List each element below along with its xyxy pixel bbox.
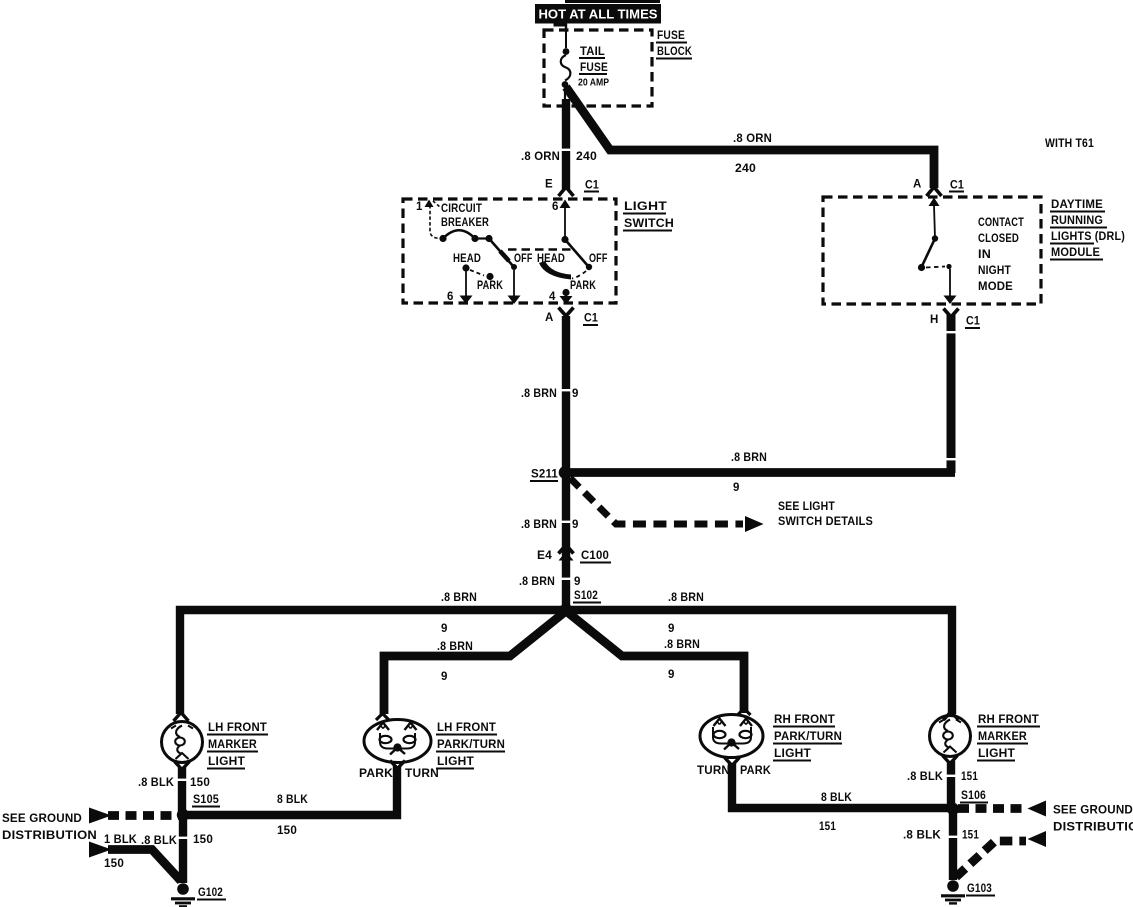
svg-text:OFF: OFF <box>589 253 608 265</box>
svg-text:C1: C1 <box>585 180 599 192</box>
wire S102 to LH front park/turn (left inner) <box>384 611 566 714</box>
splice S106 <box>947 790 988 815</box>
wire DRL H down to S211 branch (vertical) <box>947 314 956 473</box>
svg-text:.8 ORN: .8 ORN <box>733 133 772 145</box>
svg-text:1 BLK: 1 BLK <box>104 834 137 846</box>
wire from bus into fuse block <box>565 23 567 32</box>
splice S102 <box>560 590 602 617</box>
svg-text:MODE: MODE <box>978 281 1013 293</box>
svg-text:.8 BLK: .8 BLK <box>903 830 941 842</box>
gang link dashed line <box>508 248 572 251</box>
DRL output arrow to H <box>944 269 957 304</box>
svg-text:E: E <box>545 179 553 191</box>
wire S105 to G102 <box>179 815 187 883</box>
svg-text:C1: C1 <box>966 316 980 328</box>
svg-text:NIGHT: NIGHT <box>978 265 1011 277</box>
svg-text:DISTRIBUTION: DISTRIBUTION <box>1053 822 1133 834</box>
connector E C1 into light switch <box>545 179 599 197</box>
svg-text:G103: G103 <box>967 883 992 895</box>
svg-text:8 BLK: 8 BLK <box>277 794 308 806</box>
head contact dot (left pole) <box>462 264 469 271</box>
svg-text:TURN: TURN <box>697 765 730 777</box>
svg-text:SEE GROUND: SEE GROUND <box>2 813 82 825</box>
off-page arrow to ground distribution (right lower) <box>956 831 1046 877</box>
svg-text:151: 151 <box>819 821 836 833</box>
svg-text:9: 9 <box>572 519 579 531</box>
label RH FRONT PARK/TURN LIGHT <box>773 714 842 761</box>
wire S102 to RH front marker (right outer) <box>566 610 952 714</box>
label RH FRONT MARKER LIGHT <box>977 714 1040 761</box>
svg-text:H: H <box>930 314 939 326</box>
wire S102 to LH front marker (left outer) <box>180 610 562 714</box>
fuse TAIL FUSE 20 AMP <box>561 32 609 102</box>
park contact dot (left pole) <box>486 273 493 280</box>
switch blade to OFF (left pole) <box>489 239 513 267</box>
DRL input arrow <box>929 198 940 239</box>
splice S211 <box>530 466 571 481</box>
svg-text:S106: S106 <box>961 790 986 802</box>
svg-text:LIGHTS (DRL): LIGHTS (DRL) <box>1051 231 1125 243</box>
svg-text:9: 9 <box>572 388 579 400</box>
svg-text:BREAKER: BREAKER <box>441 217 489 229</box>
svg-text:TURN: TURN <box>405 768 439 780</box>
ground G103 <box>941 880 995 903</box>
svg-text:CLOSED: CLOSED <box>978 233 1019 245</box>
svg-text:BLOCK: BLOCK <box>657 46 692 58</box>
switch blade to OFF (right pole) <box>565 240 588 267</box>
LH front marker light bulb <box>162 713 203 770</box>
svg-text:.8 BLK: .8 BLK <box>907 771 943 783</box>
off-page arrow to ground distribution (right upper) <box>958 801 1046 817</box>
svg-text:RUNNING: RUNNING <box>1051 215 1103 227</box>
svg-text:LIGHT: LIGHT <box>437 756 474 768</box>
svg-text:CONTACT: CONTACT <box>978 217 1024 229</box>
svg-text:MARKER: MARKER <box>208 739 257 751</box>
svg-text:G102: G102 <box>198 887 223 899</box>
svg-text:WITH T61: WITH T61 <box>1045 138 1094 150</box>
pin 6 arrow (switch feed) <box>552 200 571 239</box>
arrow down from left OFF position <box>508 270 521 304</box>
svg-text:S102: S102 <box>574 590 598 602</box>
wire fuse to light switch E (vertical) <box>562 99 570 189</box>
svg-text:6: 6 <box>552 201 559 213</box>
svg-text:1: 1 <box>416 201 423 213</box>
svg-text:HEAD: HEAD <box>453 253 481 265</box>
svg-text:150: 150 <box>277 825 297 837</box>
svg-text:151: 151 <box>962 830 979 842</box>
svg-text:SWITCH: SWITCH <box>624 218 674 230</box>
svg-text:PARK/TURN: PARK/TURN <box>437 739 505 751</box>
svg-text:E4: E4 <box>537 550 552 562</box>
svg-text:240: 240 <box>735 163 756 175</box>
svg-text:PARK: PARK <box>740 765 771 777</box>
ground G102 <box>171 883 226 906</box>
dashed throw arc (right pole) <box>572 271 586 279</box>
svg-text:LIGHT: LIGHT <box>978 748 1015 760</box>
svg-text:8 BLK: 8 BLK <box>821 792 852 804</box>
svg-text:4: 4 <box>549 291 556 303</box>
svg-text:9: 9 <box>441 671 448 683</box>
label CIRCUIT BREAKER <box>441 203 489 229</box>
svg-text:C100: C100 <box>581 550 609 562</box>
svg-text:LIGHT: LIGHT <box>624 201 667 213</box>
LH front park/turn light bulb <box>364 714 431 769</box>
svg-text:HOT AT ALL TIMES: HOT AT ALL TIMES <box>539 8 658 22</box>
svg-text:DAYTIME: DAYTIME <box>1051 199 1103 211</box>
svg-text:TAIL: TAIL <box>580 46 605 58</box>
svg-text:LH FRONT: LH FRONT <box>437 722 496 734</box>
svg-text:.8 BRN: .8 BRN <box>437 641 473 653</box>
wire LH marker to S105 <box>178 767 186 813</box>
svg-text:.8 BLK: .8 BLK <box>138 777 174 789</box>
connector E4 C100 <box>537 545 611 563</box>
dashed arrow SEE LIGHT SWITCH DETAILS <box>570 478 873 532</box>
svg-text:.8 BRN: .8 BRN <box>521 519 557 531</box>
wire fuse to DRL module (diagonal + horizontal) <box>566 87 934 188</box>
svg-text:20 AMP: 20 AMP <box>578 77 609 89</box>
svg-text:LH FRONT: LH FRONT <box>208 722 267 734</box>
circuit breaker element <box>439 230 492 242</box>
svg-text:.8 BRN: .8 BRN <box>519 576 555 588</box>
svg-text:.8 BRN: .8 BRN <box>521 388 557 400</box>
scan tick below bus box <box>554 24 567 27</box>
svg-text:S211: S211 <box>531 469 558 481</box>
label CONTACT CLOSED IN NIGHT MODE <box>978 217 1024 293</box>
svg-text:RH FRONT: RH FRONT <box>978 714 1039 726</box>
wire S106 to G103 <box>949 809 957 880</box>
svg-text:151: 151 <box>961 771 978 783</box>
svg-text:A: A <box>545 312 554 324</box>
svg-text:S105: S105 <box>193 794 219 806</box>
svg-text:.8 ORN: .8 ORN <box>521 151 560 163</box>
light switch dashed box <box>403 199 616 303</box>
wire RH marker to S106 <box>947 761 955 807</box>
svg-text:C1: C1 <box>950 180 964 192</box>
svg-text:9: 9 <box>574 576 581 588</box>
svg-text:150: 150 <box>104 858 124 870</box>
wire S102 to RH front park/turn (right inner) <box>566 611 744 713</box>
svg-text:PARK: PARK <box>477 280 503 292</box>
pin 6 arrow down (left HEAD output) <box>447 271 473 304</box>
pin 4 arrow out of switch <box>549 291 573 305</box>
svg-text:9: 9 <box>733 482 740 494</box>
label LIGHT SWITCH <box>623 201 674 231</box>
DRL module dashed box <box>823 197 1041 304</box>
svg-text:150: 150 <box>193 834 213 846</box>
label SEE GROUND DISTRIBUTION (left) <box>2 813 97 842</box>
park contact dot (right pole) <box>562 289 569 296</box>
svg-text:.8 BRN: .8 BRN <box>441 592 477 604</box>
svg-text:SEE GROUND: SEE GROUND <box>1053 805 1133 817</box>
fuse block dashed box <box>544 30 652 106</box>
svg-text:CIRCUIT: CIRCUIT <box>441 203 482 215</box>
connector H C1 out of DRL module <box>930 309 980 329</box>
wire S211 to DRL (horizontal) <box>566 468 955 477</box>
svg-text:6: 6 <box>447 291 454 303</box>
pin 1 arrow (circuit breaker feed) <box>416 200 440 239</box>
svg-text:240: 240 <box>576 151 597 163</box>
svg-text:9: 9 <box>441 623 448 635</box>
svg-text:PARK: PARK <box>359 768 394 780</box>
svg-text:SWITCH DETAILS: SWITCH DETAILS <box>778 516 873 528</box>
DRL relay contact <box>918 235 952 271</box>
svg-text:SEE LIGHT: SEE LIGHT <box>778 501 835 513</box>
cropped bus bar top edge <box>565 0 660 3</box>
label FUSE BLOCK <box>656 30 692 59</box>
heavy contact crescent (right pole) <box>539 261 571 280</box>
feed bus HOT AT ALL TIMES <box>535 4 661 24</box>
RH front park/turn light bulb <box>700 709 763 766</box>
svg-text:.8 BRN: .8 BRN <box>668 592 704 604</box>
connector A C1 into DRL module <box>913 179 964 197</box>
svg-text:MODULE: MODULE <box>1051 247 1100 259</box>
wire gauge tick notches (white) <box>177 149 958 839</box>
svg-text:DISTRIBUTION: DISTRIBUTION <box>2 830 97 842</box>
wire light switch A to S211 to S102 (vertical trunk) <box>562 316 570 608</box>
svg-text:FUSE: FUSE <box>580 62 608 74</box>
off-page arrow to ground distribution (left upper) <box>89 808 180 824</box>
svg-text:A: A <box>913 179 922 191</box>
wire LH park/turn to S105 run <box>183 766 397 815</box>
svg-text:C1: C1 <box>584 313 598 325</box>
svg-text:LIGHT: LIGHT <box>208 756 245 768</box>
RH front marker light bulb <box>930 712 971 764</box>
svg-text:9: 9 <box>668 669 675 681</box>
svg-text:MARKER: MARKER <box>978 731 1027 743</box>
svg-text:OFF: OFF <box>514 253 533 265</box>
svg-text:FUSE: FUSE <box>657 30 685 42</box>
label SEE GROUND DISTRIBUTION (right) <box>1053 805 1133 834</box>
svg-text:PARK/TURN: PARK/TURN <box>774 731 842 743</box>
label LH FRONT PARK/TURN LIGHT <box>436 722 505 769</box>
label LH FRONT MARKER LIGHT <box>207 722 268 769</box>
svg-text:LIGHT: LIGHT <box>774 748 811 760</box>
splice S105 <box>177 794 220 821</box>
svg-text:150: 150 <box>190 777 210 789</box>
label DAYTIME RUNNING LIGHTS (DRL) MODULE <box>1050 199 1125 260</box>
switch common node (right pole) <box>561 236 568 243</box>
svg-text:RH FRONT: RH FRONT <box>774 714 835 726</box>
svg-text:.8 BRN: .8 BRN <box>664 639 700 651</box>
svg-text:.8 BRN: .8 BRN <box>731 452 767 464</box>
svg-text:IN: IN <box>978 249 991 261</box>
off-page arrow to ground distribution (left lower) <box>89 842 181 882</box>
connector A C1 out of light switch <box>545 308 598 326</box>
wire RH park/turn to S106 run <box>732 763 953 808</box>
svg-text:9: 9 <box>668 623 675 635</box>
svg-text:PARK: PARK <box>570 280 596 292</box>
dashed throw link (left pole) <box>470 270 484 276</box>
